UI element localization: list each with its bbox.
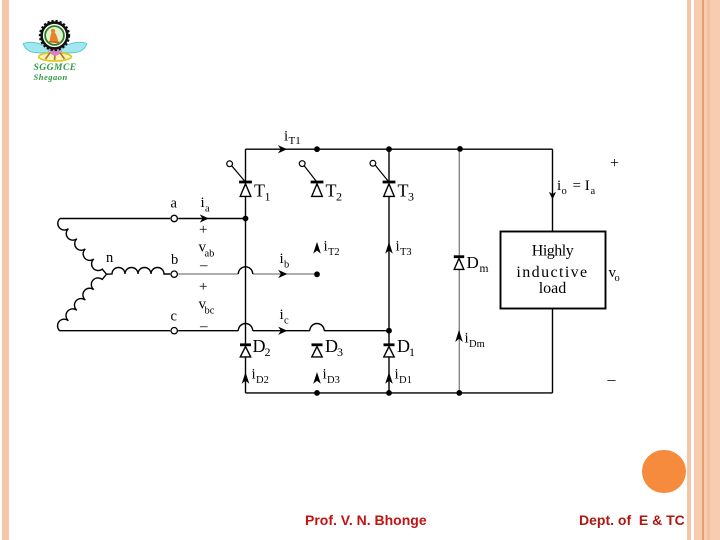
svg-text:D3: D3 [327, 375, 340, 386]
svg-text:inductive: inductive [516, 264, 588, 281]
svg-text:Dm: Dm [469, 339, 485, 350]
svg-text:a: a [171, 196, 178, 212]
svg-text:T2: T2 [328, 247, 340, 258]
svg-text:m: m [480, 263, 489, 275]
svg-text:T: T [254, 180, 265, 200]
svg-text:3: 3 [337, 345, 343, 359]
svg-text:bc: bc [205, 306, 215, 317]
svg-text:T3: T3 [400, 247, 412, 258]
svg-text:+: + [199, 279, 207, 295]
svg-text:load: load [539, 280, 567, 297]
svg-text:Highly: Highly [532, 243, 574, 260]
svg-text:2: 2 [265, 345, 271, 359]
svg-text:b: b [171, 252, 178, 268]
svg-text:T: T [326, 180, 337, 200]
svg-text:–: – [607, 372, 617, 389]
svg-text:2: 2 [336, 190, 342, 204]
svg-text:1: 1 [409, 345, 415, 359]
svg-text:o: o [562, 186, 567, 197]
svg-text:D2: D2 [256, 375, 269, 386]
svg-text:D: D [467, 253, 479, 272]
svg-text:a: a [591, 186, 596, 197]
svg-text:1: 1 [265, 190, 271, 204]
svg-text:a: a [205, 204, 210, 215]
svg-text:o: o [615, 273, 620, 284]
svg-text:+: + [610, 155, 619, 172]
svg-text:= I: = I [573, 178, 590, 194]
svg-text:3: 3 [408, 190, 414, 204]
svg-text:–: – [199, 258, 208, 274]
svg-text:c: c [284, 316, 289, 327]
svg-text:c: c [171, 309, 177, 325]
svg-text:+: + [199, 222, 207, 238]
svg-text:b: b [284, 260, 289, 271]
svg-text:T: T [398, 180, 409, 200]
svg-text:T1: T1 [289, 135, 301, 147]
svg-text:D1: D1 [399, 375, 412, 386]
svg-text:n: n [106, 250, 114, 266]
svg-text:–: – [199, 319, 208, 335]
